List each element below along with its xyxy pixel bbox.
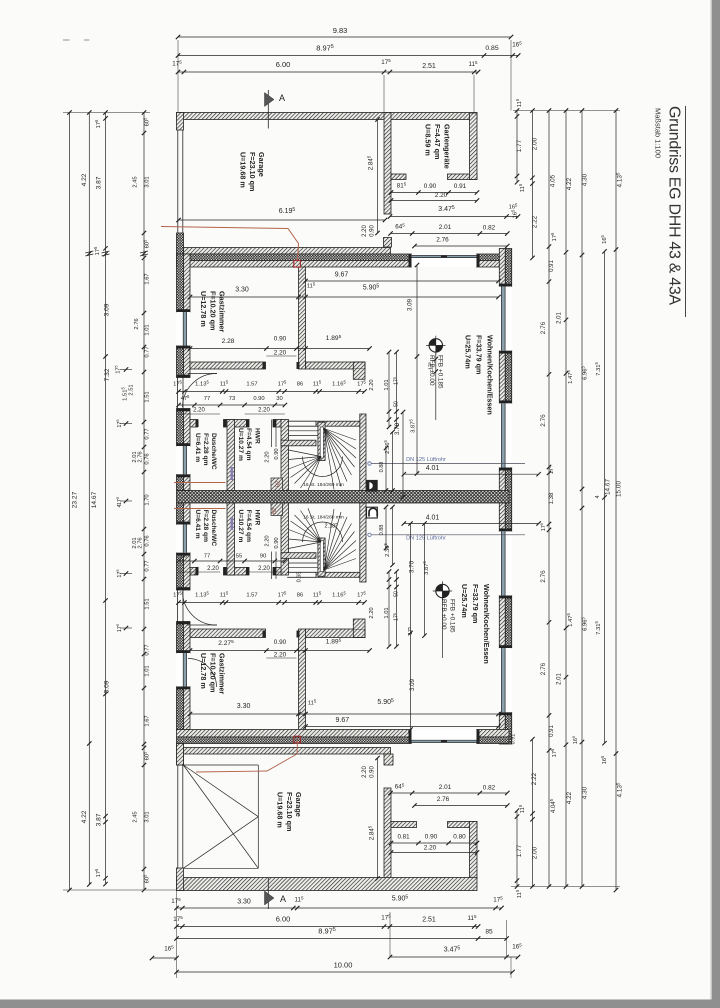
svg-text:0.81: 0.81: [397, 834, 410, 841]
svg-text:FFB +0.185: FFB +0.185: [437, 355, 444, 389]
wall: house north exterior with window: [177, 254, 412, 261]
svg-text:HWR: HWR: [254, 428, 261, 444]
FFB/RFB level marker unit 43A: [436, 584, 449, 597]
svg-text:1.67: 1.67: [145, 715, 151, 726]
svg-text:3.09: 3.09: [407, 298, 414, 311]
svg-text:F=4.54 qm: F=4.54 qm: [245, 510, 252, 543]
svg-text:1.57: 1.57: [246, 382, 257, 388]
wall: south exterior (garage+shed): [177, 878, 478, 891]
svg-text:0.88: 0.88: [379, 462, 385, 473]
svg-text:F=23.10 qm: F=23.10 qm: [285, 792, 294, 831]
svg-text:0.90: 0.90: [253, 396, 264, 402]
svg-text:1.70: 1.70: [145, 494, 151, 505]
svg-text:4.30: 4.30: [582, 786, 589, 799]
svg-text:0.91: 0.91: [549, 260, 555, 272]
svg-text:6.00: 6.00: [276, 60, 291, 69]
svg-text:2.01: 2.01: [439, 784, 452, 791]
svg-text:0.88: 0.88: [379, 525, 385, 536]
svg-text:2.20: 2.20: [362, 225, 368, 237]
svg-text:0.91: 0.91: [454, 183, 467, 190]
svg-text:U=10.27 m: U=10.27 m: [237, 510, 244, 543]
svg-text:30: 30: [276, 396, 282, 402]
dimension chains: right (1.77 2.00 4.05 4.22 4.30 4.13-5 / 14.67 15.00): [516, 111, 518, 183]
svg-text:0.90: 0.90: [370, 225, 376, 237]
svg-text:F=2.28 qm: F=2.28 qm: [202, 510, 209, 543]
svg-text:2.22: 2.22: [531, 772, 538, 785]
svg-text:1.01: 1.01: [145, 665, 151, 676]
wall: garage/shed divider: [384, 113, 391, 215]
wall: north exterior (garage+shed): [177, 113, 478, 120]
svg-text:1.57: 1.57: [246, 593, 257, 599]
svg-text:2.20: 2.20: [274, 350, 287, 357]
interior dimensions unit 43A: [377, 758, 379, 879]
svg-text:77: 77: [204, 396, 210, 402]
svg-text:3.09: 3.09: [104, 303, 111, 316]
svg-text:9.83: 9.83: [333, 26, 348, 35]
svg-text:86: 86: [297, 382, 303, 388]
svg-text:14.67: 14.67: [91, 491, 98, 508]
svg-text:52: 52: [276, 481, 282, 487]
section marker A (north) and A (south): [267, 90, 269, 129]
svg-text:0.82: 0.82: [483, 225, 496, 232]
svg-text:3.70: 3.70: [409, 560, 416, 573]
svg-text:3.30: 3.30: [237, 703, 251, 710]
svg-text:2.76: 2.76: [436, 237, 449, 244]
svg-text:2.20: 2.20: [265, 451, 271, 462]
svg-text:6.00: 6.00: [276, 915, 291, 924]
svg-text:1.01: 1.01: [145, 324, 151, 335]
svg-text:Dusche/WC: Dusche/WC: [210, 510, 217, 547]
svg-text:77: 77: [204, 554, 210, 560]
svg-text:50: 50: [394, 401, 400, 407]
svg-text:U=12.78 m: U=12.78 m: [199, 291, 208, 327]
dimension chains: left (23.27 / 4.22 14.67 / 3.87 3.09 7.32 / 2.45 3.01 segments): [69, 113, 71, 891]
interior dimensions unit 43: [179, 219, 386, 221]
svg-text:2.20: 2.20: [362, 766, 368, 778]
svg-text:50: 50: [394, 591, 400, 597]
svg-text:0.77: 0.77: [145, 346, 151, 357]
svg-text:3.09: 3.09: [409, 678, 416, 691]
svg-text:0.91: 0.91: [549, 725, 555, 737]
svg-text:85: 85: [485, 929, 493, 936]
svg-text:0.91: 0.91: [511, 734, 517, 745]
svg-text:HWR: HWR: [254, 510, 261, 526]
svg-text:16 St. 184/260 mm: 16 St. 184/260 mm: [303, 514, 344, 520]
svg-text:2.51: 2.51: [129, 384, 135, 395]
svg-text:0.90: 0.90: [425, 834, 438, 841]
svg-text:0.90: 0.90: [274, 448, 280, 459]
svg-text:0.77: 0.77: [145, 644, 151, 655]
svg-text:Grundriss EG DHH 43 & 43A: Grundriss EG DHH 43 & 43A: [666, 106, 683, 305]
svg-text:73: 73: [229, 396, 235, 402]
svg-text:F=33.79 qm: F=33.79 qm: [471, 584, 480, 623]
svg-text:2.00: 2.00: [532, 846, 539, 859]
svg-text:2.20: 2.20: [258, 566, 270, 572]
svg-text:2.28: 2.28: [222, 338, 235, 345]
svg-text:4.22: 4.22: [566, 791, 573, 804]
svg-text:DN 125 Lüftrohr: DN 125 Lüftrohr: [406, 457, 446, 463]
svg-text:U=19.68 m: U=19.68 m: [276, 792, 285, 828]
svg-text:2.22: 2.22: [532, 215, 539, 228]
svg-text:1.01: 1.01: [384, 379, 390, 390]
svg-text:1.67: 1.67: [145, 273, 151, 284]
svg-text:2.20: 2.20: [369, 607, 375, 618]
svg-text:0.90: 0.90: [274, 639, 287, 646]
svg-text:2.76: 2.76: [540, 662, 547, 675]
wall: garage rear: [184, 248, 391, 255]
svg-text:U=25.74m: U=25.74m: [460, 584, 469, 618]
svg-text:4.01: 4.01: [426, 465, 440, 472]
svg-text:4.01: 4.01: [426, 515, 440, 522]
svg-text:30: 30: [181, 554, 187, 560]
svg-text:4.05: 4.05: [550, 174, 557, 187]
svg-text:DN 125 Lüftrohr: DN 125 Lüftrohr: [406, 536, 446, 542]
svg-text:2.20: 2.20: [424, 845, 437, 852]
svg-text:Dusche/WC: Dusche/WC: [210, 433, 217, 470]
svg-text:1.77: 1.77: [516, 139, 523, 152]
svg-text:F=4.47 qm: F=4.47 qm: [433, 124, 442, 159]
svg-text:2.01: 2.01: [439, 224, 452, 231]
svg-text:2.01: 2.01: [557, 312, 563, 324]
svg-text:U=12.78 m: U=12.78 m: [199, 653, 208, 689]
svg-text:1.77: 1.77: [516, 844, 523, 857]
svg-text:10.00: 10.00: [334, 961, 353, 970]
wall: house south exterior with window: [177, 730, 412, 738]
svg-text:2.20: 2.20: [435, 192, 448, 199]
svg-text:F=23.10 qm: F=23.10 qm: [248, 152, 257, 191]
svg-text:3.87: 3.87: [96, 813, 103, 826]
svg-text:Wohnen/Kochen/Essen: Wohnen/Kochen/Essen: [486, 335, 495, 415]
dimension chains: bottom (3.30 5.90-5 / 6.00 2.51 / 8.97-5 / 3.47-5 / 10.00): [177, 907, 502, 909]
svg-text:2.51: 2.51: [422, 917, 436, 924]
svg-text:2.20: 2.20: [258, 408, 270, 414]
svg-text:2.20: 2.20: [265, 535, 271, 546]
svg-text:0.77: 0.77: [145, 560, 151, 571]
svg-text:FFB +0.185: FFB +0.185: [449, 599, 456, 633]
svg-text:2.01: 2.01: [132, 537, 138, 548]
svg-text:U=8.59 m: U=8.59 m: [424, 124, 433, 156]
svg-text:F=33.79 qm: F=33.79 qm: [475, 335, 484, 374]
svg-text:A: A: [280, 894, 286, 904]
svg-text:1.51: 1.51: [145, 391, 151, 402]
svg-text:2.76: 2.76: [138, 451, 144, 462]
svg-text:2.76: 2.76: [540, 570, 547, 583]
svg-text:1.38: 1.38: [549, 492, 555, 504]
svg-text:U=25.74m: U=25.74m: [464, 335, 473, 369]
svg-text:7.32: 7.32: [104, 368, 111, 381]
svg-text:3.30: 3.30: [235, 287, 249, 294]
svg-text:90: 90: [260, 554, 266, 560]
svg-text:4.22: 4.22: [81, 173, 88, 186]
red markup lines and squares: [161, 227, 299, 261]
svg-text:0.90: 0.90: [274, 537, 280, 548]
svg-text:Garage: Garage: [257, 152, 266, 177]
svg-text:F=4.54 qm: F=4.54 qm: [245, 428, 252, 461]
svg-text:0.90: 0.90: [370, 766, 376, 778]
stairs: winder stair unit 43A, 16 steps: [281, 553, 316, 559]
svg-text:Maßstab 1:100: Maßstab 1:100: [654, 108, 663, 158]
svg-text:2.20: 2.20: [274, 652, 287, 659]
svg-text:U=6.41 m: U=6.41 m: [194, 433, 201, 462]
svg-text:0.76: 0.76: [145, 453, 151, 464]
svg-text:0.77: 0.77: [145, 428, 151, 439]
svg-text:U=6.41 m: U=6.41 m: [194, 510, 201, 539]
svg-text:0.80: 0.80: [453, 834, 466, 841]
svg-text:86: 86: [297, 593, 303, 599]
svg-text:2.01: 2.01: [132, 451, 138, 462]
doors: entrance door swings, west wall: [183, 373, 218, 407]
svg-text:Garage: Garage: [294, 792, 303, 817]
svg-text:2.20: 2.20: [207, 566, 219, 572]
svg-text:1.51: 1.51: [145, 598, 151, 609]
dimension chains: top (9.83 / 8.97-5 / 6.00 2.51): [178, 36, 511, 38]
svg-text:4.22: 4.22: [81, 810, 88, 823]
svg-text:4.30: 4.30: [582, 173, 589, 186]
svg-text:3.87: 3.87: [96, 176, 103, 189]
svg-text:U=10.27 m: U=10.27 m: [237, 428, 244, 461]
svg-text:0.85: 0.85: [485, 45, 498, 52]
svg-text:F=10.20 qm: F=10.20 qm: [208, 653, 217, 692]
svg-text:RFB ±0.00: RFB ±0.00: [428, 355, 435, 386]
svg-text:0.76: 0.76: [145, 535, 151, 546]
svg-text:55: 55: [236, 554, 242, 560]
svg-text:2.20: 2.20: [193, 408, 205, 414]
svg-text:2.76: 2.76: [540, 414, 547, 427]
svg-text:2.76: 2.76: [138, 537, 144, 548]
svg-text:RFB ±0.00: RFB ±0.00: [440, 599, 447, 630]
svg-text:2.51: 2.51: [422, 63, 436, 70]
svg-text:0.82: 0.82: [483, 785, 496, 792]
svg-text:0.65: 0.65: [297, 572, 303, 583]
svg-text:52: 52: [272, 508, 278, 514]
svg-text:3.09: 3.09: [104, 680, 111, 693]
svg-text:16 St. 184/260 mm: 16 St. 184/260 mm: [303, 482, 344, 488]
svg-text:2.01: 2.01: [557, 673, 563, 685]
FFB/RFB level marker unit 43: [429, 339, 442, 352]
svg-text:9.67: 9.67: [335, 717, 349, 724]
svg-text:2.00: 2.00: [532, 137, 539, 150]
svg-text:3.01: 3.01: [145, 176, 151, 187]
wall: party wall between units 43 and 43A: [177, 491, 510, 504]
svg-text:4: 4: [595, 495, 601, 498]
svg-text:2.20: 2.20: [369, 379, 375, 390]
svg-text:3.30: 3.30: [237, 899, 251, 906]
svg-text:3.01: 3.01: [145, 811, 151, 822]
svg-text:14.67: 14.67: [605, 479, 612, 495]
walls: interior partitions unit 43A: [299, 629, 306, 738]
svg-text:U=19.68 m: U=19.68 m: [239, 152, 248, 188]
svg-text:Wohnen/Kochen/Essen: Wohnen/Kochen/Essen: [482, 584, 491, 664]
svg-text:2.45: 2.45: [133, 176, 139, 187]
svg-text:F=2.28 qm: F=2.28 qm: [202, 433, 209, 466]
vent duct boxes at party wall: [367, 480, 378, 491]
svg-text:Gastzimmer: Gastzimmer: [218, 653, 227, 694]
svg-text:4: 4: [117, 504, 123, 507]
svg-text:Gartengeräte: Gartengeräte: [443, 124, 452, 169]
svg-text:15.00: 15.00: [616, 481, 623, 497]
svg-text:9.67: 9.67: [335, 272, 349, 279]
svg-text:2.45: 2.45: [133, 811, 139, 822]
svg-text:2.76: 2.76: [134, 318, 140, 329]
svg-text:23.27: 23.27: [72, 491, 79, 508]
svg-text:A: A: [279, 93, 285, 103]
svg-text:2.76: 2.76: [540, 321, 547, 334]
svg-text:0.90: 0.90: [424, 183, 437, 190]
svg-text:4.22: 4.22: [566, 177, 573, 190]
svg-text:1.01: 1.01: [384, 607, 390, 618]
garage door leaf, unit 43A: [183, 764, 258, 766]
svg-text:0.90: 0.90: [274, 336, 287, 343]
walls: interior partitions unit 43: [299, 267, 306, 369]
svg-text:2.76: 2.76: [437, 796, 450, 803]
stairs: winder stair unit 43, 16 steps: [281, 440, 316, 446]
